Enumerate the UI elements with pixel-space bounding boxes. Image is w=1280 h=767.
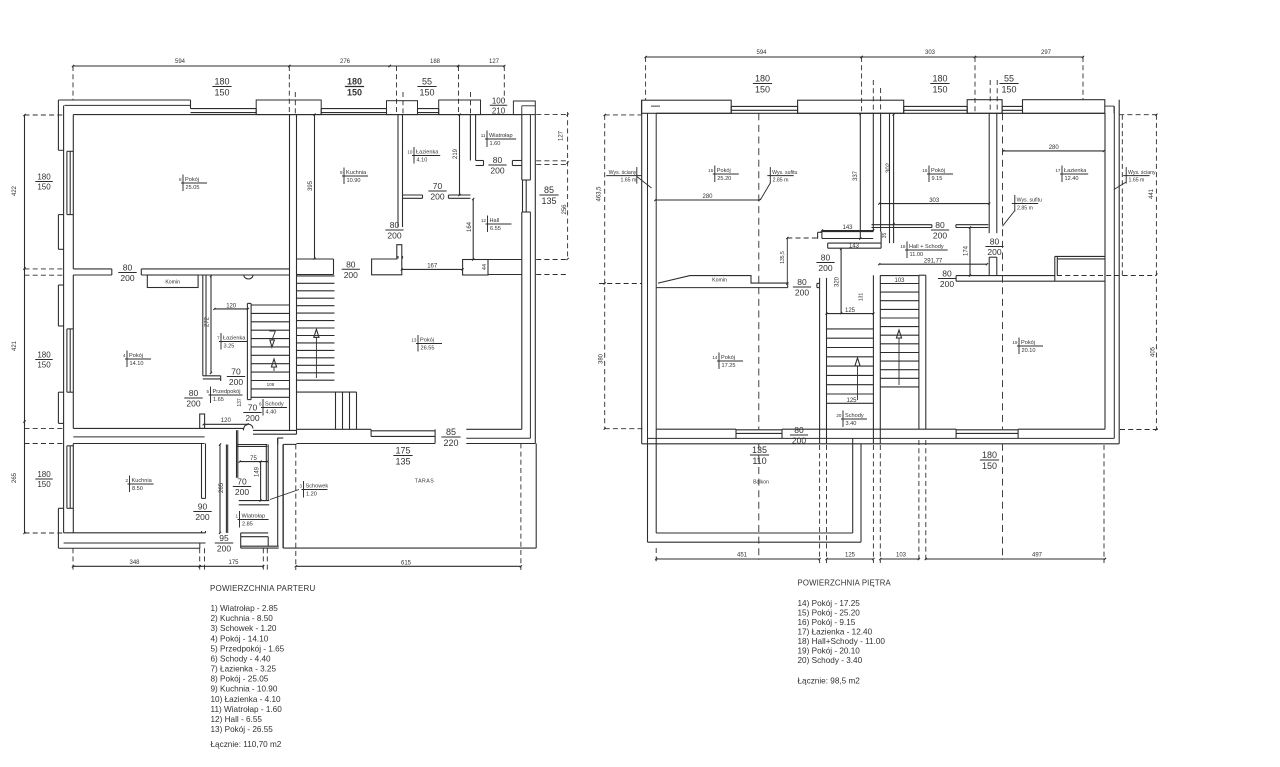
svg-text:200: 200: [186, 399, 200, 409]
left plan: dim 75: [239, 456, 269, 463]
svg-text:5) Przedpokój - 1.65: 5) Przedpokój - 1.65: [211, 644, 285, 653]
svg-text:80: 80: [794, 425, 804, 435]
right plan: wys sufitu (middle): [1003, 195, 1043, 226]
svg-text:20) Schody - 3.40: 20) Schody - 3.40: [798, 656, 863, 665]
right plan: top dim chain: [645, 50, 1085, 58]
right plan: dim 135,5: [780, 237, 820, 285]
svg-text:12) Hall - 6.55: 12) Hall - 6.55: [211, 715, 263, 724]
right plan: top wall window 180 (b): [904, 106, 968, 113]
left plan: entrance door 100/210 label: [490, 97, 507, 116]
left plan: stairs right flight treads: [297, 276, 335, 380]
left plan: przedpokoj south wall: [243, 428, 245, 430]
svg-text:19) Pokój - 20.10: 19) Pokój - 20.10: [798, 646, 861, 655]
svg-text:85: 85: [446, 427, 456, 437]
right plan: balcony door 180/150: [956, 429, 1018, 438]
right plan: wys sufitu (room15): [760, 167, 797, 200]
svg-text:Łazienka: Łazienka: [1064, 168, 1087, 174]
svg-text:8.50: 8.50: [132, 486, 143, 492]
right plan: right wall: [1105, 100, 1119, 444]
svg-text:80: 80: [797, 277, 807, 287]
right plan: stairs arrow up (right): [896, 330, 901, 385]
svg-text:25.20: 25.20: [717, 176, 731, 182]
svg-text:200: 200: [229, 377, 243, 387]
left plan: door 80/200 label (hall top): [385, 220, 403, 241]
left plan: wiatrolap11 west wall: [470, 115, 483, 166]
left plan: door 70/200 label (schowek): [233, 477, 251, 498]
left plan: przedpokoj step wall: [203, 376, 221, 381]
svg-text:10.90: 10.90: [347, 178, 361, 184]
right plan: stairs left flight treads: [827, 329, 874, 403]
svg-text:405: 405: [1150, 346, 1156, 357]
svg-text:200: 200: [792, 436, 806, 446]
left plan: pier 44: [463, 260, 488, 276]
left plan: left dim chain: [12, 114, 26, 534]
svg-text:25.05: 25.05: [186, 185, 200, 191]
svg-text:8: 8: [179, 177, 182, 182]
svg-text:200: 200: [795, 288, 809, 298]
svg-text:Wys. ściany: Wys. ściany: [609, 170, 637, 176]
svg-text:594: 594: [756, 50, 767, 56]
svg-text:150: 150: [1001, 85, 1016, 95]
left plan: stairs left flight treads: [251, 305, 289, 397]
left plan: left wall faces: [64, 106, 74, 533]
left plan: stairs arrow up (small): [271, 359, 276, 371]
left plan: right window label 85/135: [539, 185, 558, 206]
left plan: schowek north wall: [237, 445, 268, 447]
svg-text:131: 131: [859, 293, 865, 302]
svg-text:200: 200: [235, 487, 249, 497]
svg-text:Schody: Schody: [845, 413, 864, 419]
svg-text:127: 127: [489, 59, 500, 65]
svg-text:463,5: 463,5: [597, 186, 603, 202]
svg-text:8) Pokój - 25.05: 8) Pokój - 25.05: [211, 675, 269, 684]
svg-text:20.10: 20.10: [1022, 348, 1036, 354]
right plan: dim 131: [859, 293, 865, 302]
svg-text:337: 337: [853, 170, 859, 181]
svg-text:302: 302: [886, 162, 892, 173]
svg-text:200: 200: [195, 512, 209, 522]
left plan: wiatrolap1 bottom walls: [241, 533, 279, 548]
svg-text:14) Pokój - 17.25: 14) Pokój - 17.25: [798, 599, 861, 608]
svg-text:POWIERZCHNIA PIĘTRA: POWIERZCHNIA PIĘTRA: [798, 578, 892, 587]
svg-text:594: 594: [175, 59, 186, 65]
svg-text:35: 35: [882, 233, 888, 239]
svg-text:Wiatrołap: Wiatrołap: [242, 514, 266, 520]
svg-text:150: 150: [37, 480, 51, 489]
right plan: stair east wall: [919, 275, 926, 429]
svg-text:3.40: 3.40: [846, 421, 857, 427]
svg-text:180: 180: [755, 74, 770, 84]
svg-text:2.85: 2.85: [242, 521, 253, 527]
left plan: wiatrolap1 west wall: [226, 445, 227, 533]
svg-text:150: 150: [214, 88, 229, 98]
right plan: dim 280 (room15): [654, 194, 760, 201]
svg-text:Wys. sufitu: Wys. sufitu: [772, 170, 797, 176]
svg-text:11: 11: [481, 133, 486, 138]
svg-text:80: 80: [493, 155, 503, 165]
svg-text:497: 497: [1032, 553, 1043, 559]
svg-text:85: 85: [544, 185, 554, 195]
left plan: door 95/200 label: [215, 533, 233, 554]
left plan: room4/kitchen2 wall: [73, 414, 243, 444]
svg-text:11.00: 11.00: [910, 252, 924, 258]
right plan: door 80/200 label (lazienka17 door): [985, 237, 1003, 258]
left plan: lazienka10 south wall: [403, 195, 471, 198]
right plan: balcony big label 135/110: [750, 445, 769, 466]
right plan: dim 125 (lower): [846, 398, 857, 404]
svg-text:395: 395: [308, 180, 314, 191]
left plan: stairs left flight stringer: [247, 303, 251, 399]
svg-text:70: 70: [433, 181, 443, 191]
svg-text:4.10: 4.10: [417, 157, 428, 163]
svg-text:200: 200: [818, 263, 832, 273]
svg-text:150: 150: [347, 88, 362, 98]
left plan: room3 label: [270, 481, 328, 500]
left plan: left wall window 180 (3): [67, 446, 73, 509]
svg-text:219: 219: [453, 148, 459, 159]
left plan: stairs winder block: [297, 392, 357, 429]
left plan: right wall window 85/135: [522, 180, 531, 212]
svg-text:Przedpokój: Przedpokój: [213, 389, 241, 395]
svg-text:180: 180: [982, 450, 997, 460]
svg-text:120: 120: [226, 303, 237, 309]
svg-text:167: 167: [427, 264, 438, 270]
right plan: left dim chain: [597, 114, 606, 430]
svg-text:75: 75: [250, 456, 257, 462]
svg-text:80: 80: [821, 253, 831, 263]
svg-text:200: 200: [120, 273, 134, 283]
svg-text:Komin: Komin: [712, 278, 727, 284]
left plan: room12 label: [481, 216, 512, 233]
right plan: balcony door 135/110: [736, 429, 782, 438]
svg-text:297: 297: [1041, 50, 1052, 56]
svg-text:180: 180: [214, 77, 229, 87]
left plan: komin block (room13): [372, 245, 402, 275]
svg-text:Pokój: Pokój: [185, 177, 199, 183]
svg-text:90: 90: [198, 502, 208, 512]
right plan: wys sciany left: [606, 167, 651, 188]
svg-text:150: 150: [37, 183, 51, 192]
svg-text:80: 80: [123, 263, 133, 273]
right plan: ceiling dash (room15): [758, 113, 760, 560]
left plan: dim 164: [467, 198, 474, 261]
left plan: dim 137: [237, 382, 275, 406]
svg-text:200: 200: [430, 192, 444, 202]
svg-text:110: 110: [752, 456, 766, 466]
left plan: wall A (room8/room4): [73, 269, 289, 275]
svg-text:1.65 m: 1.65 m: [1129, 177, 1145, 183]
svg-text:1: 1: [235, 514, 238, 519]
svg-text:135: 135: [752, 445, 767, 455]
svg-text:Wys. ściany: Wys. ściany: [1128, 170, 1156, 176]
right plan: dim 337: [853, 113, 861, 240]
right plan: dim 174: [964, 226, 972, 276]
svg-text:348: 348: [129, 560, 140, 566]
left plan: schowek east wall: [266, 445, 268, 501]
left plan: taras outline: [278, 438, 537, 548]
svg-text:135: 135: [395, 457, 410, 467]
left plan: room7 label: [217, 333, 247, 350]
svg-text:200: 200: [245, 413, 259, 423]
svg-text:17) Łazienka - 12.40: 17) Łazienka - 12.40: [798, 627, 873, 636]
left plan: stair west wall: [290, 115, 297, 435]
svg-text:220: 220: [443, 438, 458, 448]
right plan: wys sciany right: [1114, 167, 1156, 189]
svg-text:70: 70: [231, 367, 241, 377]
left plan: room11 label: [481, 131, 516, 148]
svg-text:150: 150: [932, 85, 947, 95]
svg-text:Schody: Schody: [265, 402, 284, 408]
left plan: dim 265 (wiatrolap): [219, 443, 225, 534]
svg-text:200: 200: [217, 544, 231, 554]
right plan: dim 143 (lower): [849, 244, 860, 250]
right plan: stairs arrow up (left): [855, 358, 860, 400]
svg-text:17.25: 17.25: [722, 363, 736, 369]
svg-text:14: 14: [712, 355, 718, 360]
svg-text:135,5: 135,5: [780, 251, 786, 264]
left plan: dim 120 (lazienka7): [213, 303, 249, 310]
svg-text:265: 265: [12, 472, 18, 483]
svg-text:200: 200: [387, 231, 401, 241]
svg-text:100: 100: [492, 97, 506, 106]
right plan: room16 label: [922, 166, 953, 183]
svg-text:108: 108: [267, 382, 275, 387]
svg-text:303: 303: [925, 50, 936, 56]
svg-text:615: 615: [401, 561, 412, 567]
svg-text:421: 421: [12, 340, 18, 351]
left plan: lazienka7 west wall: [203, 275, 206, 376]
svg-text:103: 103: [894, 278, 905, 284]
svg-text:175: 175: [395, 446, 410, 456]
svg-text:1.65: 1.65: [213, 397, 224, 403]
svg-text:180: 180: [932, 74, 947, 84]
svg-text:9: 9: [340, 170, 343, 175]
right plan: door 80/200 label (room16): [931, 220, 949, 241]
right plan: dim 35: [882, 233, 888, 239]
svg-text:16: 16: [922, 168, 928, 173]
left plan: right wall faces: [522, 115, 536, 444]
svg-text:7) Łazienka - 3.25: 7) Łazienka - 3.25: [211, 665, 277, 674]
left plan: room13 label: [411, 335, 442, 352]
right plan: stairs right flight treads: [880, 276, 919, 387]
right plan: lazienka17 south wall: [1004, 256, 1105, 281]
left plan: door notch arc (wall A): [244, 275, 253, 279]
right plan: stair mid wall: [873, 275, 880, 444]
left plan: top wall window 180 (a): [191, 109, 257, 115]
right plan: komin row: [656, 276, 788, 288]
right plan: bottom wall: [642, 429, 1119, 444]
svg-text:180: 180: [347, 77, 362, 87]
svg-text:Wys. sufitu: Wys. sufitu: [1017, 198, 1042, 204]
svg-text:Pokój: Pokój: [1021, 340, 1035, 346]
left plan: schody south wall: [253, 430, 297, 434]
left plan: door notch arc (przedpokoj): [244, 424, 253, 428]
svg-text:17: 17: [1055, 168, 1061, 173]
svg-text:15: 15: [708, 168, 714, 173]
svg-text:80: 80: [935, 220, 945, 230]
left plan: bottom dim chain: [72, 560, 522, 567]
right plan: room18 label: [900, 242, 947, 259]
left plan: south window 175/135: [371, 429, 435, 443]
svg-text:Pokój: Pokój: [717, 168, 731, 174]
left plan: left wall window 180 (2): [67, 329, 73, 392]
svg-text:18) Hall+Schody - 11.00: 18) Hall+Schody - 11.00: [798, 637, 886, 646]
left plan: top wall window 55: [418, 109, 439, 115]
right plan: dim 303 (room16): [878, 198, 990, 205]
svg-text:188: 188: [430, 59, 441, 65]
right plan: door 80/200 label (jog): [816, 253, 834, 274]
left plan: dim 219: [453, 114, 460, 197]
right plan: dim 280 (lazienka17): [1002, 145, 1105, 152]
svg-text:6) Schody - 4.40: 6) Schody - 4.40: [211, 655, 272, 664]
svg-text:18: 18: [900, 244, 906, 249]
left plan: schowek east outer wall: [278, 438, 283, 548]
svg-text:1.65 m: 1.65 m: [620, 177, 636, 183]
left plan: top window label 180/150 (a): [212, 77, 231, 98]
svg-text:9.15: 9.15: [932, 176, 943, 182]
right plan: dim 125 (upper): [825, 308, 874, 315]
right plan: top wall bumps: [642, 100, 1115, 114]
svg-text:143: 143: [842, 225, 853, 231]
svg-text:Łącznie: 110,70 m2: Łącznie: 110,70 m2: [211, 740, 282, 749]
right plan: dim 320: [835, 248, 843, 314]
left plan: room10 label: [407, 147, 440, 164]
left plan: left wall sill bumps: [58, 215, 63, 549]
svg-text:276: 276: [340, 59, 351, 65]
right plan: top wall inner face: [656, 112, 1105, 114]
right plan: room16/17 wall: [989, 113, 997, 233]
svg-text:103: 103: [896, 553, 907, 559]
svg-text:80: 80: [942, 269, 952, 279]
svg-text:Komin: Komin: [165, 280, 180, 286]
left plan: room2 label: [125, 476, 153, 493]
left plan: stairs arrow up (right flight): [314, 329, 319, 378]
left plan: bottom dim extensions: [73, 443, 521, 570]
svg-text:80: 80: [990, 237, 1000, 247]
svg-text:POWIERZCHNIA PARTERU: POWIERZCHNIA PARTERU: [210, 584, 316, 593]
svg-text:26.55: 26.55: [421, 345, 435, 351]
svg-text:12: 12: [481, 218, 487, 223]
right plan: room16 south wall: [872, 225, 989, 228]
left plan: top wall inner face: [73, 114, 522, 116]
svg-text:1.60: 1.60: [490, 141, 501, 147]
svg-text:19: 19: [1012, 340, 1018, 345]
svg-text:10: 10: [407, 150, 413, 155]
left plan: top dim extensions: [73, 66, 504, 115]
svg-text:16) Pokój - 9.15: 16) Pokój - 9.15: [798, 618, 856, 627]
left plan: room9 label: [340, 168, 368, 185]
right plan: top dim extensions: [646, 57, 1083, 113]
left plan: komin box (kitchen): [147, 275, 198, 288]
left plan: dim 120 (przedpokoj): [203, 418, 249, 425]
svg-text:70: 70: [248, 403, 258, 413]
right plan: jog wall upper: [818, 232, 874, 239]
svg-text:20: 20: [836, 413, 842, 418]
svg-text:380: 380: [599, 353, 605, 364]
svg-text:2.85 m: 2.85 m: [1017, 205, 1033, 211]
svg-text:9) Kuchnia - 10.90: 9) Kuchnia - 10.90: [211, 685, 278, 694]
svg-text:95: 95: [219, 533, 229, 543]
svg-text:15) Pokój - 25.20: 15) Pokój - 25.20: [798, 609, 861, 618]
left plan: bottom wall (south section): [297, 429, 536, 443]
svg-text:12.40: 12.40: [1065, 176, 1079, 182]
right plan: top wall window 180 (a): [731, 106, 797, 113]
svg-text:210: 210: [492, 107, 506, 116]
right plan: jog wall lower: [828, 232, 881, 249]
svg-text:149: 149: [254, 466, 260, 477]
svg-text:125: 125: [845, 308, 856, 314]
left plan: top window label 55/150: [417, 77, 436, 98]
svg-text:180: 180: [37, 470, 51, 479]
left plan: room1 label: [235, 511, 268, 528]
left plan: left window label (1): [35, 173, 52, 192]
svg-text:164: 164: [467, 221, 473, 232]
svg-text:Kuchnia: Kuchnia: [132, 478, 153, 484]
left plan: top wall window sill bumps: [58, 100, 535, 150]
left plan: room5 label: [206, 387, 242, 404]
left plan: room4 label: [123, 351, 151, 368]
left plan: left dim extensions: [25, 115, 64, 533]
svg-text:291,77: 291,77: [924, 259, 943, 265]
svg-text:280: 280: [702, 194, 713, 200]
left plan: door 80/200 label (wiatrolap11): [488, 155, 506, 176]
svg-text:Balkon: Balkon: [753, 480, 769, 486]
svg-text:422: 422: [12, 185, 18, 196]
right plan: room17 label: [1055, 166, 1088, 183]
svg-text:Kuchnia: Kuchnia: [346, 170, 367, 176]
svg-text:200: 200: [987, 247, 1001, 257]
legend: parter area list: [210, 584, 316, 749]
svg-text:13: 13: [411, 338, 417, 343]
svg-text:55: 55: [1004, 74, 1014, 84]
right plan: balkon label: [753, 480, 769, 486]
right plan: dim 291,77: [878, 259, 988, 266]
right plan: door 80/200 (balcony exit): [790, 425, 808, 446]
svg-text:120: 120: [221, 418, 232, 424]
left plan: kitchen9/lazienka10 wall: [398, 115, 403, 227]
left plan: dim 149: [254, 461, 261, 502]
svg-text:150: 150: [419, 88, 434, 98]
right plan: dim 302: [886, 114, 895, 226]
svg-text:135: 135: [541, 196, 556, 206]
svg-text:125: 125: [846, 398, 857, 404]
left plan: schowek west wall: [237, 430, 238, 478]
left plan: top dim chain: [72, 59, 506, 67]
svg-text:320: 320: [835, 276, 841, 287]
svg-text:6.55: 6.55: [490, 226, 501, 232]
svg-text:280: 280: [1049, 145, 1060, 151]
left plan: top window label 180/150 (b): [345, 77, 364, 98]
left plan: left window label (2): [35, 351, 52, 370]
svg-text:143: 143: [849, 244, 860, 250]
right plan: top window label 180/150 (b): [930, 74, 949, 95]
svg-text:5: 5: [206, 389, 209, 394]
svg-text:180: 180: [37, 351, 51, 360]
svg-text:200: 200: [940, 279, 954, 289]
right plan: room19 label: [1012, 338, 1043, 355]
svg-text:2.85 m: 2.85 m: [773, 177, 789, 183]
svg-text:200: 200: [490, 166, 504, 176]
left plan: door 80/200 label (wall A): [118, 263, 136, 284]
svg-text:Hall + Schody: Hall + Schody: [909, 244, 944, 250]
svg-text:10) Łazienka - 4.10: 10) Łazienka - 4.10: [211, 695, 282, 704]
svg-text:Wiatrołap: Wiatrołap: [489, 133, 513, 139]
svg-text:Łazienka: Łazienka: [416, 150, 439, 156]
svg-text:256: 256: [562, 204, 568, 215]
legend: pietro area list: [798, 578, 892, 685]
left plan: room6 label: [259, 399, 287, 416]
right plan: ceiling dash (lazienka17): [1002, 113, 1004, 560]
